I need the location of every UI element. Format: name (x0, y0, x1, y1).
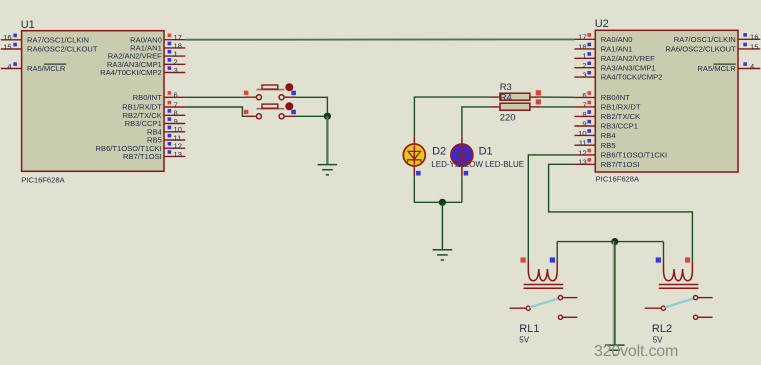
wire D1 cathode down (461, 176, 463, 202)
wire RL2 coil left up (663, 242, 665, 262)
svg-text:RA2/AN2/VREF: RA2/AN2/VREF (601, 54, 655, 63)
svg-text:R4: R4 (500, 92, 512, 103)
U2 pin 18 (RA1/AN1) (574, 42, 632, 53)
U1 pin 6 (RB0/INT) (133, 91, 186, 102)
LED D1 (451, 136, 473, 176)
svg-text:1: 1 (582, 52, 586, 61)
svg-text:6: 6 (582, 91, 586, 100)
U1 pin 2 (RA3/AN3/CMP1) (107, 58, 185, 69)
U1 pin 9 (RB3/CCP1) (125, 117, 186, 128)
wire R3 to U2.RB0 (540, 96, 574, 98)
relay RL1 coil (521, 257, 564, 288)
svg-text:RA4/T0CKI/CMP2: RA4/T0CKI/CMP2 (100, 68, 162, 77)
svg-text:17: 17 (578, 33, 586, 42)
U1 pin 8 (RB2/TX/CK) (123, 109, 186, 120)
wire U1.RA0 to U2.RA0 (long top net) (185, 38, 574, 40)
U2 pin 7 (RB1/RX/DT) (574, 100, 640, 111)
svg-text:7: 7 (582, 100, 586, 109)
svg-text:RB3/CCP1: RB3/CCP1 (601, 122, 638, 131)
wire junction to ground (relays) (614, 242, 616, 345)
svg-text:RA6/OSC2/CLKOUT: RA6/OSC2/CLKOUT (665, 45, 736, 54)
push button 1 (244, 83, 296, 100)
svg-text:13: 13 (578, 158, 586, 167)
wire U1.RB0 to button 1 left (185, 96, 246, 98)
svg-text:4: 4 (750, 62, 754, 71)
U2 pin 3 (RA4/T0CKI/CMP2) (574, 71, 662, 82)
svg-text:RB1/RX/DT: RB1/RX/DT (601, 103, 641, 112)
U2 pin 11 (RB5) (574, 139, 615, 150)
svg-text:RB6/T1OSO/T1CKI: RB6/T1OSO/T1CKI (601, 151, 667, 160)
U1 pin 1 (RA2/AN2/VREF) (108, 50, 186, 61)
wire U2.RB6 to RL1 coil left (528, 155, 574, 262)
svg-text:5V: 5V (519, 335, 529, 344)
svg-text:RB7/T1OSI: RB7/T1OSI (123, 152, 162, 161)
U1 pin 13 (RB7/T1OSI) (123, 150, 185, 161)
resistor R4 (490, 99, 541, 110)
U1 pin 12 (RB6/T1OSO/T1CKI) (96, 142, 186, 153)
U1 pin 15 (RA6/OSC2/CLKOUT) (1, 42, 98, 53)
svg-text:18: 18 (578, 42, 586, 51)
wire LED cathodes join (414, 201, 462, 203)
U2 pin 12 (RB6/T1OSO/T1CKI) (574, 148, 667, 159)
wire U2.RB7 to RL2 coil right (549, 164, 693, 262)
wire R3 to LED D2 (414, 97, 489, 136)
svg-text:8: 8 (582, 110, 586, 119)
svg-text:3: 3 (174, 66, 178, 75)
wire shadow beside ground drop (612, 242, 614, 344)
U1 pin 18 (RA1/AN1) (130, 41, 185, 52)
wire button 1 right to junction (295, 97, 327, 116)
relay RL1 switch (510, 296, 578, 320)
svg-text:15: 15 (3, 42, 11, 51)
svg-text:6: 6 (174, 91, 178, 100)
svg-text:RB0/INT: RB0/INT (133, 93, 162, 102)
svg-text:U2: U2 (595, 18, 609, 30)
svg-text:RB7/T1OSI: RB7/T1OSI (601, 160, 640, 169)
wire RL1 coil right up (556, 242, 558, 262)
U1 pin 10 (RB4) (147, 125, 185, 136)
svg-text:RA6/OSC2/CLKOUT: RA6/OSC2/CLKOUT (27, 45, 98, 54)
U1 pin 16 (RA7/OSC1/CLKIN) (1, 33, 89, 44)
svg-text:RB5: RB5 (601, 141, 616, 150)
resistor R3 (490, 90, 541, 100)
svg-text:LED-BLUE: LED-BLUE (485, 160, 524, 169)
svg-text:16: 16 (3, 33, 11, 42)
wire R4 to LED D1 (462, 107, 490, 136)
relay RL2 coil (656, 257, 699, 288)
IC U2 PIC16F628A body (595, 30, 738, 172)
wire D2 cathode down (413, 176, 415, 202)
svg-text:11: 11 (579, 139, 587, 148)
svg-text:RB0/INT: RB0/INT (601, 93, 630, 102)
IC U1 PIC16F628A body (22, 31, 164, 172)
svg-text:RA3/AN3/CMP1: RA3/AN3/CMP1 (601, 63, 656, 72)
wire R4 to U2.RB1 (540, 106, 574, 108)
svg-text:RA5/MCLR: RA5/MCLR (27, 64, 66, 73)
U2 pin 1 (RA2/AN2/VREF) (574, 52, 655, 63)
svg-text:4: 4 (7, 62, 11, 71)
U2 pin 2 (RA3/AN3/CMP1) (574, 61, 655, 72)
svg-text:D2: D2 (432, 145, 446, 157)
U1 pin 11 (RB5) (147, 133, 185, 144)
svg-text:RA0/AN0: RA0/AN0 (601, 35, 633, 44)
svg-text:9: 9 (582, 119, 586, 128)
svg-text:PIC16F628A: PIC16F628A (21, 175, 65, 184)
U2 pin 17 (RA0/AN0) (574, 33, 632, 44)
svg-text:12: 12 (578, 148, 586, 157)
svg-text:RA1/AN1: RA1/AN1 (601, 45, 633, 54)
junction of LED cathodes (439, 199, 446, 206)
U2 pin 10 (RB4) (574, 129, 615, 140)
wire junction to ground (buttons) (326, 116, 328, 164)
svg-text:RL1: RL1 (519, 323, 539, 335)
ground (buttons) (318, 165, 338, 175)
svg-text:RL2: RL2 (652, 323, 672, 335)
U1 pin 17 (RA0/AN0) (130, 33, 185, 44)
U2 pin 16 (RA7/OSC1/CLKIN) (674, 33, 761, 44)
svg-text:15: 15 (750, 42, 758, 51)
U2 pin 13 (RB7/T1OSI) (574, 158, 639, 169)
svg-text:10: 10 (578, 129, 586, 138)
svg-text:RA7/OSC1/CLKIN: RA7/OSC1/CLKIN (674, 35, 736, 44)
U2 pin 4 (RA5/MCLR) (697, 62, 760, 73)
wire U1.RB1 to button 2 left (185, 107, 246, 116)
junction of button outputs (324, 113, 331, 120)
svg-text:2: 2 (582, 61, 586, 70)
U2 pin 6 (RB0/INT) (574, 91, 630, 102)
svg-text:RB2/TX/CK: RB2/TX/CK (601, 112, 640, 121)
ground (relays) (605, 345, 625, 355)
svg-text:RA4/T0CKI/CMP2: RA4/T0CKI/CMP2 (601, 73, 663, 82)
U1 pin 3 (RA4/T0CKI/CMP2) (100, 66, 185, 77)
svg-text:16: 16 (750, 33, 758, 42)
relay RL2 switch (645, 296, 713, 320)
U2 pin 8 (RB2/TX/CK) (574, 110, 640, 121)
svg-text:D1: D1 (479, 145, 493, 157)
U2 pin 9 (RB3/CCP1) (574, 119, 638, 130)
U1 pin 7 (RB1/RX/DT) (122, 100, 185, 111)
push button 2 (244, 102, 296, 119)
U1 pin 4 (RA5/MCLR) (1, 62, 66, 73)
svg-text:220: 220 (500, 112, 516, 123)
svg-text:3: 3 (582, 71, 586, 80)
svg-text:PIC16F628A: PIC16F628A (596, 175, 640, 184)
svg-text:13: 13 (174, 150, 182, 159)
wire relay common net (557, 241, 663, 243)
ground (LEDs) (433, 250, 453, 260)
U2 pin 15 (RA6/OSC2/CLKOUT) (665, 42, 760, 53)
wire junction to ground (LEDs) (441, 202, 443, 250)
wire button 2 right to junction (295, 115, 327, 117)
svg-text:RB4: RB4 (601, 131, 616, 140)
svg-text:RA5/MCLR: RA5/MCLR (697, 64, 736, 73)
svg-text:320volt.com: 320volt.com (594, 343, 678, 360)
LED D2 (403, 136, 425, 176)
junction of relay common net (611, 238, 618, 245)
svg-text:U1: U1 (21, 19, 35, 31)
svg-text:RA7/OSC1/CLKIN: RA7/OSC1/CLKIN (27, 35, 89, 44)
